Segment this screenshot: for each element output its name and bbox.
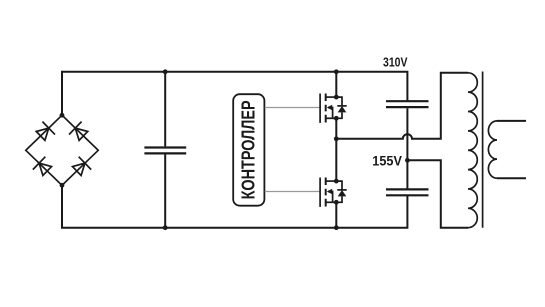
svg-text:310V: 310V bbox=[383, 54, 408, 69]
wire: top rail (+310V bus) bbox=[62, 72, 407, 115]
capacitor C3 (bottom half-bridge cap) plates bbox=[386, 189, 429, 195]
wire: cap midpoint to transformer primary bottom bbox=[407, 160, 468, 227]
wire: gate drive to Q1 (grey) bbox=[265, 107, 320, 109]
node: bridge + vertex bbox=[60, 113, 65, 118]
wire: switch node to transformer primary top (with hop over cap leg) bbox=[336, 73, 468, 139]
transformer T1 primary winding bbox=[468, 73, 477, 228]
node: Q2 drain junction bbox=[334, 179, 339, 184]
diode D2 (top-right, points to + vertex) bbox=[69, 122, 90, 143]
node: C1 bottom junction bbox=[163, 225, 168, 230]
svg-text:155V: 155V bbox=[372, 152, 402, 168]
node: Q1 source junction bbox=[334, 116, 339, 121]
transformer T1 core bbox=[482, 72, 484, 228]
controller box U1 bbox=[233, 94, 264, 206]
node: Q1 drain junction bbox=[334, 95, 339, 100]
bridge rectifier diamond wires bbox=[26, 115, 98, 185]
node: Q2 source junction bbox=[334, 200, 339, 205]
wire: bottom rail (0V bus) bbox=[62, 185, 407, 227]
svg-text:КОНТРОЛЛЕР: КОНТРОЛЛЕР bbox=[239, 100, 259, 199]
diode D1 (top-left, points to + vertex) bbox=[34, 122, 55, 143]
wire: capacitor leg between C2 and C3 bbox=[406, 108, 408, 188]
capacitor C1 top lead wire bbox=[164, 72, 166, 147]
capacitor C2 (top half-bridge cap) plates bbox=[386, 101, 429, 107]
capacitor C1 plates bbox=[144, 148, 186, 154]
node: bottom rail / Q2 source tap bbox=[334, 225, 339, 230]
transistor Q1 (high side N-MOSFET) bbox=[320, 94, 347, 123]
wire: Q1 source to Q2 drain (switch node column) bbox=[335, 118, 337, 181]
capacitor C1 bottom lead wire bbox=[164, 155, 166, 228]
transistor Q2 (low side N-MOSFET) bbox=[320, 178, 347, 207]
wire: drain feed from top rail to Q1 bbox=[335, 72, 337, 97]
transformer T1 secondary winding bbox=[488, 121, 497, 178]
node: top rail / Q1 drain tap bbox=[334, 69, 339, 74]
wire: Q2 source to bottom rail bbox=[335, 202, 337, 227]
wire: secondary top lead bbox=[497, 120, 526, 122]
wire: secondary bottom lead bbox=[497, 177, 526, 179]
node: C1 top junction bbox=[163, 69, 168, 74]
node: switch node (half-bridge midpoint) bbox=[334, 136, 339, 141]
wire: gate drive to Q2 (grey) bbox=[265, 191, 320, 193]
node: bridge - vertex bbox=[60, 183, 65, 188]
diode D3 (bottom-left, points to left AC vertex) bbox=[33, 157, 54, 178]
node: capacitor midpoint (155V) bbox=[405, 158, 410, 163]
diode D4 (bottom-right, points to right AC vertex) bbox=[71, 157, 92, 178]
